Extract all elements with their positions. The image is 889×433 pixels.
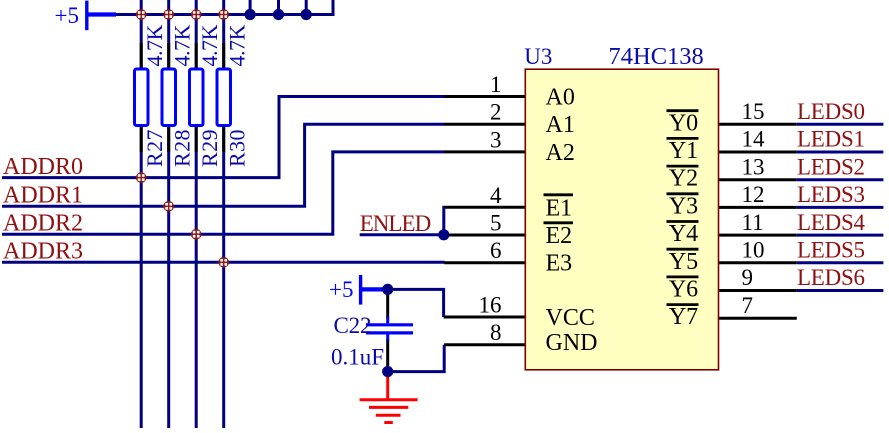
svg-text:+5: +5: [55, 3, 79, 28]
svg-text:LEDS5: LEDS5: [797, 238, 865, 263]
svg-text:11: 11: [742, 210, 764, 235]
svg-text:R30: R30: [225, 130, 250, 168]
svg-text:LEDS6: LEDS6: [797, 265, 865, 290]
svg-text:74HC138: 74HC138: [609, 43, 704, 70]
svg-text:2: 2: [490, 100, 502, 125]
svg-text:E2: E2: [546, 223, 573, 249]
svg-text:+5: +5: [329, 277, 353, 302]
svg-text:4: 4: [490, 183, 502, 208]
svg-text:Y4: Y4: [669, 221, 698, 247]
svg-text:4.7K: 4.7K: [197, 24, 222, 66]
svg-text:ADDR0: ADDR0: [3, 154, 83, 180]
svg-text:Y0: Y0: [669, 110, 698, 136]
svg-text:3: 3: [490, 127, 502, 152]
svg-text:VCC: VCC: [546, 305, 595, 331]
svg-text:R27: R27: [142, 130, 167, 168]
svg-text:ADDR1: ADDR1: [3, 183, 83, 209]
svg-text:4.7K: 4.7K: [225, 24, 250, 66]
svg-text:ADDR3: ADDR3: [3, 239, 83, 265]
svg-text:12: 12: [742, 182, 765, 207]
svg-text:Y1: Y1: [669, 138, 698, 164]
svg-text:1: 1: [490, 72, 502, 97]
svg-text:LEDS1: LEDS1: [797, 127, 865, 152]
svg-text:Y3: Y3: [669, 193, 698, 219]
svg-text:6: 6: [490, 238, 502, 263]
svg-text:GND: GND: [546, 330, 598, 356]
svg-text:LEDS4: LEDS4: [797, 210, 866, 235]
svg-text:LEDS2: LEDS2: [797, 154, 865, 179]
svg-text:14: 14: [742, 127, 766, 152]
svg-text:A0: A0: [546, 85, 575, 111]
svg-text:13: 13: [742, 154, 765, 179]
svg-text:E3: E3: [546, 251, 573, 277]
svg-text:ENLED: ENLED: [360, 211, 432, 236]
svg-text:C22: C22: [334, 313, 372, 338]
svg-text:A1: A1: [546, 112, 575, 138]
svg-text:Y2: Y2: [669, 166, 698, 192]
svg-text:15: 15: [742, 99, 765, 124]
svg-text:5: 5: [490, 211, 502, 236]
svg-text:9: 9: [742, 265, 754, 290]
svg-text:16: 16: [479, 293, 502, 318]
svg-text:ADDR2: ADDR2: [3, 210, 83, 236]
svg-text:7: 7: [742, 293, 754, 318]
svg-text:U3: U3: [524, 44, 552, 69]
svg-text:Y6: Y6: [669, 277, 698, 303]
svg-text:R29: R29: [197, 130, 222, 168]
svg-text:A2: A2: [546, 140, 575, 166]
svg-text:8: 8: [490, 320, 502, 345]
svg-text:4.7K: 4.7K: [170, 24, 195, 66]
svg-text:R28: R28: [170, 130, 195, 168]
svg-text:E1: E1: [546, 195, 573, 221]
svg-text:0.1uF: 0.1uF: [331, 345, 384, 370]
svg-text:Y7: Y7: [669, 304, 698, 330]
svg-text:LEDS0: LEDS0: [797, 99, 865, 124]
svg-text:4.7K: 4.7K: [142, 24, 167, 66]
svg-text:10: 10: [742, 238, 765, 263]
svg-text:Y5: Y5: [669, 249, 698, 275]
svg-text:LEDS3: LEDS3: [797, 182, 865, 207]
